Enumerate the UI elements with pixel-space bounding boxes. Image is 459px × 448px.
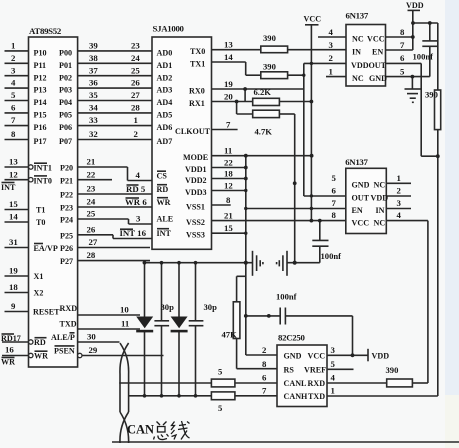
svg-text:32: 32	[89, 129, 98, 139]
svg-text:10: 10	[120, 305, 129, 315]
svg-text:GND: GND	[369, 74, 387, 83]
svg-text:2: 2	[329, 53, 334, 63]
svg-text:WR: WR	[157, 198, 171, 207]
svg-text:P04: P04	[59, 98, 72, 107]
svg-text:3: 3	[331, 345, 336, 355]
svg-text:INT0: INT0	[34, 176, 52, 185]
svg-text:MODE: MODE	[183, 153, 208, 162]
svg-text:39: 39	[89, 41, 98, 51]
svg-text:22: 22	[87, 169, 96, 179]
svg-text:7: 7	[332, 198, 337, 208]
svg-text:AD2: AD2	[157, 73, 173, 82]
svg-text:VSS3: VSS3	[186, 231, 205, 240]
svg-text:18: 18	[9, 282, 18, 292]
svg-text:P12: P12	[34, 73, 47, 82]
svg-text:NC: NC	[352, 35, 364, 44]
svg-text:P15: P15	[34, 111, 47, 120]
svg-text:14: 14	[9, 212, 18, 222]
svg-text:12: 12	[9, 169, 18, 179]
svg-text:13: 13	[9, 157, 18, 167]
svg-text:20: 20	[224, 92, 233, 102]
svg-text:31: 31	[9, 237, 18, 247]
svg-text:TXD: TXD	[60, 320, 77, 329]
svg-text:CLKOUT: CLKOUT	[175, 127, 211, 136]
svg-text:6: 6	[11, 103, 16, 113]
svg-text:34: 34	[89, 103, 98, 113]
svg-text:24: 24	[131, 53, 140, 63]
svg-text:P22: P22	[60, 191, 73, 200]
svg-text:RX0: RX0	[189, 87, 205, 96]
svg-text:6: 6	[400, 53, 405, 63]
svg-text:VREF: VREF	[304, 366, 326, 375]
svg-text:2: 2	[397, 186, 402, 196]
svg-text:7: 7	[11, 115, 16, 125]
svg-text:33: 33	[89, 115, 98, 125]
svg-text:5: 5	[331, 359, 336, 369]
svg-text:RD: RD	[157, 185, 169, 194]
svg-text:VDD: VDD	[372, 352, 390, 361]
svg-text:GND: GND	[284, 352, 302, 361]
svg-text:RXD: RXD	[60, 304, 78, 313]
svg-text:100nf: 100nf	[276, 292, 297, 302]
svg-text:P02: P02	[59, 73, 72, 82]
svg-text:8: 8	[226, 195, 231, 205]
svg-text:5: 5	[218, 367, 222, 377]
svg-text:19: 19	[9, 266, 18, 276]
svg-text:VDD: VDD	[406, 1, 424, 10]
svg-text:AD1: AD1	[157, 61, 173, 70]
svg-text:WR: WR	[34, 352, 48, 361]
svg-text:P13: P13	[34, 86, 47, 95]
svg-text:X1: X1	[34, 272, 44, 281]
svg-text:P27: P27	[60, 257, 73, 266]
svg-text:390: 390	[263, 33, 276, 43]
svg-text:RD17: RD17	[1, 334, 21, 343]
svg-text:2: 2	[262, 345, 267, 355]
svg-text:VDD3: VDD3	[185, 188, 207, 197]
svg-text:CANL: CANL	[284, 379, 308, 388]
svg-text:P17: P17	[34, 137, 47, 146]
svg-text:EN: EN	[372, 48, 383, 57]
svg-text:3: 3	[397, 198, 402, 208]
svg-text:WR: WR	[1, 358, 15, 367]
svg-text:VDD1: VDD1	[185, 165, 207, 174]
svg-text:P20: P20	[60, 164, 73, 173]
svg-text:NC: NC	[374, 181, 386, 190]
svg-text:P25: P25	[60, 231, 73, 240]
svg-text:P26: P26	[60, 244, 73, 253]
svg-text:7: 7	[226, 120, 231, 130]
svg-text:AD6: AD6	[157, 123, 173, 132]
svg-text:AD0: AD0	[157, 49, 173, 58]
svg-text:2: 2	[134, 129, 139, 139]
svg-text:23: 23	[87, 184, 96, 194]
svg-text:6: 6	[262, 373, 267, 383]
svg-text:100nf: 100nf	[321, 251, 342, 261]
svg-text:37: 37	[89, 65, 98, 75]
svg-text:28: 28	[131, 103, 140, 113]
svg-text:P16: P16	[34, 123, 47, 132]
svg-text:47K: 47K	[222, 330, 238, 340]
svg-text:25: 25	[87, 209, 96, 219]
svg-text:P03: P03	[59, 86, 72, 95]
svg-text:15: 15	[9, 199, 18, 209]
svg-text:7: 7	[262, 386, 267, 396]
svg-text:TX1: TX1	[190, 60, 205, 69]
svg-text:VCC: VCC	[304, 15, 322, 24]
svg-text:RESET: RESET	[33, 307, 60, 316]
svg-text:IN: IN	[376, 206, 385, 215]
svg-text:RS: RS	[284, 366, 295, 375]
svg-text:28: 28	[87, 250, 96, 260]
svg-text:P11: P11	[34, 61, 47, 70]
svg-text:21: 21	[224, 211, 233, 221]
svg-text:1: 1	[329, 66, 333, 76]
svg-text:P24: P24	[60, 216, 73, 225]
svg-text:11: 11	[121, 319, 129, 329]
svg-text:82C250: 82C250	[278, 333, 305, 343]
svg-text:ALE: ALE	[157, 215, 174, 224]
svg-text:VCC: VCC	[352, 218, 370, 227]
svg-text:22: 22	[224, 158, 233, 168]
svg-text:CAN: CAN	[127, 423, 154, 437]
svg-text:PSEN: PSEN	[54, 346, 75, 355]
svg-text:ALE/P: ALE/P	[51, 333, 75, 342]
svg-text:8: 8	[11, 129, 16, 139]
svg-text:6: 6	[332, 186, 337, 196]
svg-text:30: 30	[87, 332, 96, 342]
svg-text:6N137: 6N137	[346, 11, 369, 21]
svg-text:4: 4	[329, 27, 334, 37]
svg-text:INT: INT	[157, 229, 172, 238]
svg-text:VCC: VCC	[367, 35, 385, 44]
svg-text:5: 5	[11, 90, 16, 100]
svg-text:3: 3	[136, 214, 141, 224]
svg-text:3: 3	[11, 65, 16, 75]
svg-text:26: 26	[87, 224, 96, 234]
svg-text:16: 16	[5, 345, 14, 355]
svg-text:5: 5	[332, 173, 337, 183]
svg-text:INT: INT	[1, 183, 16, 192]
svg-text:390: 390	[263, 62, 276, 72]
svg-text:CANH: CANH	[284, 392, 309, 401]
svg-text:1: 1	[134, 115, 138, 125]
svg-text:390: 390	[386, 365, 399, 375]
svg-text:GND: GND	[352, 181, 370, 190]
svg-text:EN: EN	[352, 206, 363, 215]
svg-text:VCC: VCC	[308, 352, 326, 361]
svg-text:VSS2: VSS2	[186, 218, 205, 227]
svg-text:EA/VP: EA/VP	[34, 244, 58, 253]
svg-text:T1: T1	[36, 206, 45, 215]
svg-text:26: 26	[131, 78, 140, 88]
svg-text:38: 38	[89, 53, 98, 63]
svg-text:18: 18	[224, 169, 233, 179]
svg-text:VDD2: VDD2	[185, 176, 207, 185]
svg-text:OUT: OUT	[352, 193, 370, 202]
svg-text:T0: T0	[36, 218, 45, 227]
svg-text:OUT: OUT	[369, 61, 387, 70]
svg-text:6N137: 6N137	[345, 157, 368, 167]
svg-text:19: 19	[224, 79, 233, 89]
svg-text:9: 9	[11, 301, 16, 311]
svg-text:30p: 30p	[161, 302, 175, 312]
svg-text:VSS1: VSS1	[186, 203, 205, 212]
svg-text:P06: P06	[59, 123, 72, 132]
svg-text:24: 24	[87, 197, 96, 207]
svg-text:P05: P05	[59, 111, 72, 120]
svg-text:3: 3	[329, 40, 334, 50]
svg-text:P21: P21	[60, 176, 73, 185]
svg-text:CS: CS	[157, 172, 168, 181]
svg-text:36: 36	[89, 78, 98, 88]
svg-text:INT1: INT1	[34, 164, 52, 173]
svg-text:SJA1000: SJA1000	[153, 24, 185, 34]
svg-text:P01: P01	[59, 61, 72, 70]
svg-text:NC: NC	[374, 218, 386, 227]
svg-text:4: 4	[136, 170, 141, 180]
svg-text:P14: P14	[34, 98, 47, 107]
svg-text:4: 4	[11, 78, 16, 88]
svg-text:VDD: VDD	[371, 193, 389, 202]
svg-text:390: 390	[425, 90, 438, 100]
svg-text:35: 35	[89, 90, 98, 100]
svg-text:14: 14	[224, 52, 233, 62]
svg-text:VDD: VDD	[351, 61, 369, 70]
svg-text:2: 2	[11, 53, 16, 63]
svg-text:23: 23	[131, 41, 140, 51]
svg-text:7: 7	[400, 40, 405, 50]
svg-text:AD4: AD4	[157, 98, 173, 107]
svg-text:RX1: RX1	[189, 99, 205, 108]
svg-text:IN: IN	[352, 48, 361, 57]
svg-text:6.2K: 6.2K	[254, 87, 272, 97]
svg-text:RD: RD	[34, 338, 46, 347]
svg-text:29: 29	[89, 345, 98, 355]
svg-text:AD7: AD7	[157, 137, 173, 146]
svg-text:P10: P10	[34, 49, 47, 58]
svg-text:P07: P07	[59, 137, 72, 146]
svg-text:5: 5	[218, 403, 222, 413]
svg-text:13: 13	[224, 40, 233, 50]
svg-text:4: 4	[397, 210, 402, 220]
svg-text:27: 27	[89, 237, 98, 247]
svg-text:30p: 30p	[204, 302, 218, 312]
svg-text:4: 4	[331, 373, 336, 383]
svg-text:8: 8	[332, 210, 337, 220]
svg-text:21: 21	[87, 157, 96, 167]
svg-text:8: 8	[400, 27, 405, 37]
svg-text:X2: X2	[34, 289, 44, 298]
svg-text:NC: NC	[352, 74, 364, 83]
svg-text:1: 1	[397, 173, 401, 183]
svg-text:1: 1	[331, 386, 335, 396]
svg-text:8: 8	[262, 359, 267, 369]
svg-text:TXD: TXD	[308, 392, 325, 401]
svg-text:15: 15	[224, 223, 233, 233]
svg-text:TX0: TX0	[190, 47, 205, 56]
svg-text:5: 5	[400, 66, 405, 76]
svg-text:25: 25	[131, 65, 140, 75]
svg-text:12: 12	[224, 181, 233, 191]
svg-text:AD3: AD3	[157, 86, 173, 95]
svg-text:100nf: 100nf	[413, 52, 434, 62]
svg-text:AD5: AD5	[157, 111, 173, 120]
svg-text:27: 27	[131, 90, 140, 100]
svg-text:RXD: RXD	[308, 379, 326, 388]
svg-text:11: 11	[224, 146, 232, 156]
svg-text:AT89S52: AT89S52	[29, 26, 62, 36]
svg-text:4.7K: 4.7K	[255, 127, 273, 137]
svg-text:1: 1	[11, 41, 15, 51]
svg-text:P00: P00	[59, 49, 72, 58]
svg-text:P23: P23	[60, 204, 73, 213]
